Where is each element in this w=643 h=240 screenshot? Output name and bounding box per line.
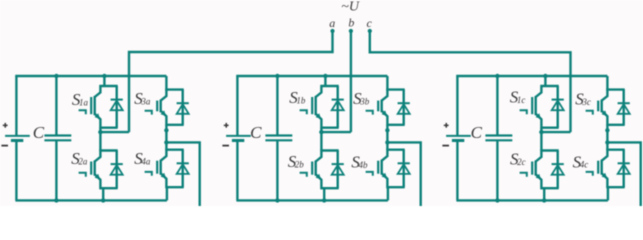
freewheeling diode of S4a (177, 150, 189, 188)
wire: left rail upper (456, 75, 458, 136)
wire: phase tap (leg midpoint to phase c drop) (540, 131, 570, 133)
svg-text:b: b (348, 16, 354, 30)
junction: S2b exit / bottom bus (322, 198, 326, 202)
terminal a (330, 29, 334, 33)
wire: right midpoint out (down to lower stage) (165, 142, 199, 207)
wire: S4b exit to bottom bus (387, 187, 389, 200)
wire: S2b exit to bottom bus (323, 188, 325, 200)
svg-text:C: C (250, 123, 262, 142)
wire: phase b lead (350, 31, 352, 132)
freewheeling diode of S4b (398, 150, 410, 188)
IGBT switch S3a (145, 89, 184, 126)
freewheeling diode of S1a (111, 86, 123, 128)
svg-text:C: C (471, 123, 483, 142)
wire: S2a exit to bottom bus (102, 188, 104, 200)
H-bridge cell phase b (222, 74, 420, 207)
IGBT switch S2b (300, 150, 339, 190)
junction: cap / bottom bus (54, 198, 58, 202)
battery plus mark (224, 123, 229, 128)
wire: bottom DC bus (236, 199, 388, 201)
svg-text:a: a (329, 16, 335, 30)
battery minus mark (442, 145, 449, 147)
freewheeling diode of S1c (552, 86, 564, 128)
freewheeling diode of S2a (111, 151, 123, 189)
capacitor C (a cell) (44, 136, 71, 141)
capacitor C (b cell) (265, 136, 292, 141)
wire: S3a feed (top bus end) (165, 76, 167, 91)
junction: right midpoint (605, 140, 609, 144)
junction: right midpoint (385, 140, 389, 144)
wire: capacitor top lead (276, 76, 278, 136)
junction: cap / top bus (495, 74, 499, 78)
junction: S1a feed / top bus (102, 74, 106, 78)
wire: left rail lower (456, 141, 458, 201)
junction: cap / bottom bus (275, 198, 279, 202)
wire: S2c exit to bottom bus (543, 188, 545, 200)
wire: right leg midpoint link (386, 125, 388, 150)
wire: bottom DC bus (15, 199, 167, 201)
wire: phase c lead (370, 31, 571, 132)
wire: left leg midpoint link (99, 128, 101, 151)
terminal b (349, 29, 353, 33)
wire: S4a exit to bottom bus (166, 187, 168, 200)
junction: S2c exit / bottom bus (542, 198, 546, 202)
battery plus mark (444, 123, 449, 128)
junction dot on right leg (605, 128, 609, 132)
wire: capacitor bottom lead (55, 140, 57, 200)
junction: S2a exit / bottom bus (101, 198, 105, 202)
junction: cap / top bus (275, 74, 279, 78)
DC source Ec (battery) (446, 136, 471, 141)
junction: cap / top bus (54, 74, 58, 78)
IGBT switch S2a (79, 150, 118, 190)
wire: left rail lower (236, 141, 238, 201)
freewheeling diode of S2b (332, 151, 344, 189)
IGBT switch S4b (366, 149, 405, 189)
freewheeling diode of S1b (332, 86, 344, 128)
IGBT switch S1a (79, 85, 118, 129)
wire: capacitor top lead (55, 76, 57, 136)
wire: capacitor bottom lead (276, 140, 278, 200)
wire: top DC bus (15, 75, 166, 77)
battery plus mark (3, 123, 8, 128)
freewheeling diode of S3c (618, 90, 630, 125)
svg-text:~U: ~U (341, 0, 360, 15)
IGBT switch S1b (300, 85, 339, 129)
wire: right midpoint out (down to lower stage) (606, 142, 640, 207)
freewheeling diode of S3a (177, 90, 189, 125)
freewheeling diode of S2c (552, 151, 564, 189)
IGBT switch S4a (145, 149, 184, 189)
wire: S1b feed from top bus (324, 76, 326, 87)
wire: bottom DC bus (456, 199, 608, 201)
junction dot on right leg (164, 128, 168, 132)
wire: S1c feed from top bus (544, 76, 546, 87)
H-bridge cell phase a (1, 74, 199, 207)
wire: phase tap (leg midpoint to phase a drop) (99, 131, 129, 133)
junction: midpoint / phase tap (319, 130, 323, 134)
junction: S1c feed / top bus (543, 74, 547, 78)
wire: left leg midpoint link (320, 128, 322, 151)
IGBT switch S1c (520, 85, 559, 129)
wire: left rail upper (15, 75, 17, 136)
capacitor C (c cell) (485, 136, 512, 141)
DC source Eb (battery) (226, 136, 251, 141)
wire: left rail upper (236, 75, 238, 136)
battery minus mark (1, 145, 8, 147)
junction: midpoint / phase tap (98, 130, 102, 134)
wire: capacitor bottom lead (496, 140, 498, 200)
svg-text:C: C (33, 123, 45, 142)
wire: S3c feed (top bus end) (606, 76, 608, 91)
junction: S1b feed / top bus (323, 74, 327, 78)
battery minus mark (222, 145, 229, 147)
wire: top DC bus (236, 75, 387, 77)
H-bridge cell phase c (442, 74, 640, 207)
freewheeling diode of S3b (398, 90, 410, 125)
freewheeling diode of S4c (618, 150, 630, 188)
wire: phase a lead (129, 31, 333, 132)
wire: S1a feed from top bus (103, 76, 105, 87)
terminal c (368, 29, 372, 33)
wire: right midpoint out (down to lower stage) (386, 142, 420, 207)
wire: phase tap (leg midpoint to phase b drop) (320, 131, 351, 133)
wire: right leg midpoint link (165, 125, 167, 150)
junction: cap / bottom bus (495, 198, 499, 202)
svg-text:c: c (367, 16, 373, 30)
junction: midpoint / phase tap (539, 130, 543, 134)
wire: capacitor top lead (496, 76, 498, 136)
wire: right leg midpoint link (606, 125, 608, 150)
wire: top DC bus (456, 75, 607, 77)
junction: right midpoint (164, 140, 168, 144)
wire: left rail lower (15, 141, 17, 201)
DC source Ea (battery) (5, 136, 30, 141)
wire: left leg midpoint link (540, 128, 542, 151)
wire: S4c exit to bottom bus (607, 187, 609, 200)
junction dot on right leg (385, 128, 389, 132)
wire: S3b feed (top bus end) (386, 76, 388, 91)
IGBT switch S4c (586, 149, 625, 189)
IGBT switch S3c (586, 89, 625, 126)
IGBT switch S3b (366, 89, 405, 126)
IGBT switch S2c (520, 150, 559, 190)
